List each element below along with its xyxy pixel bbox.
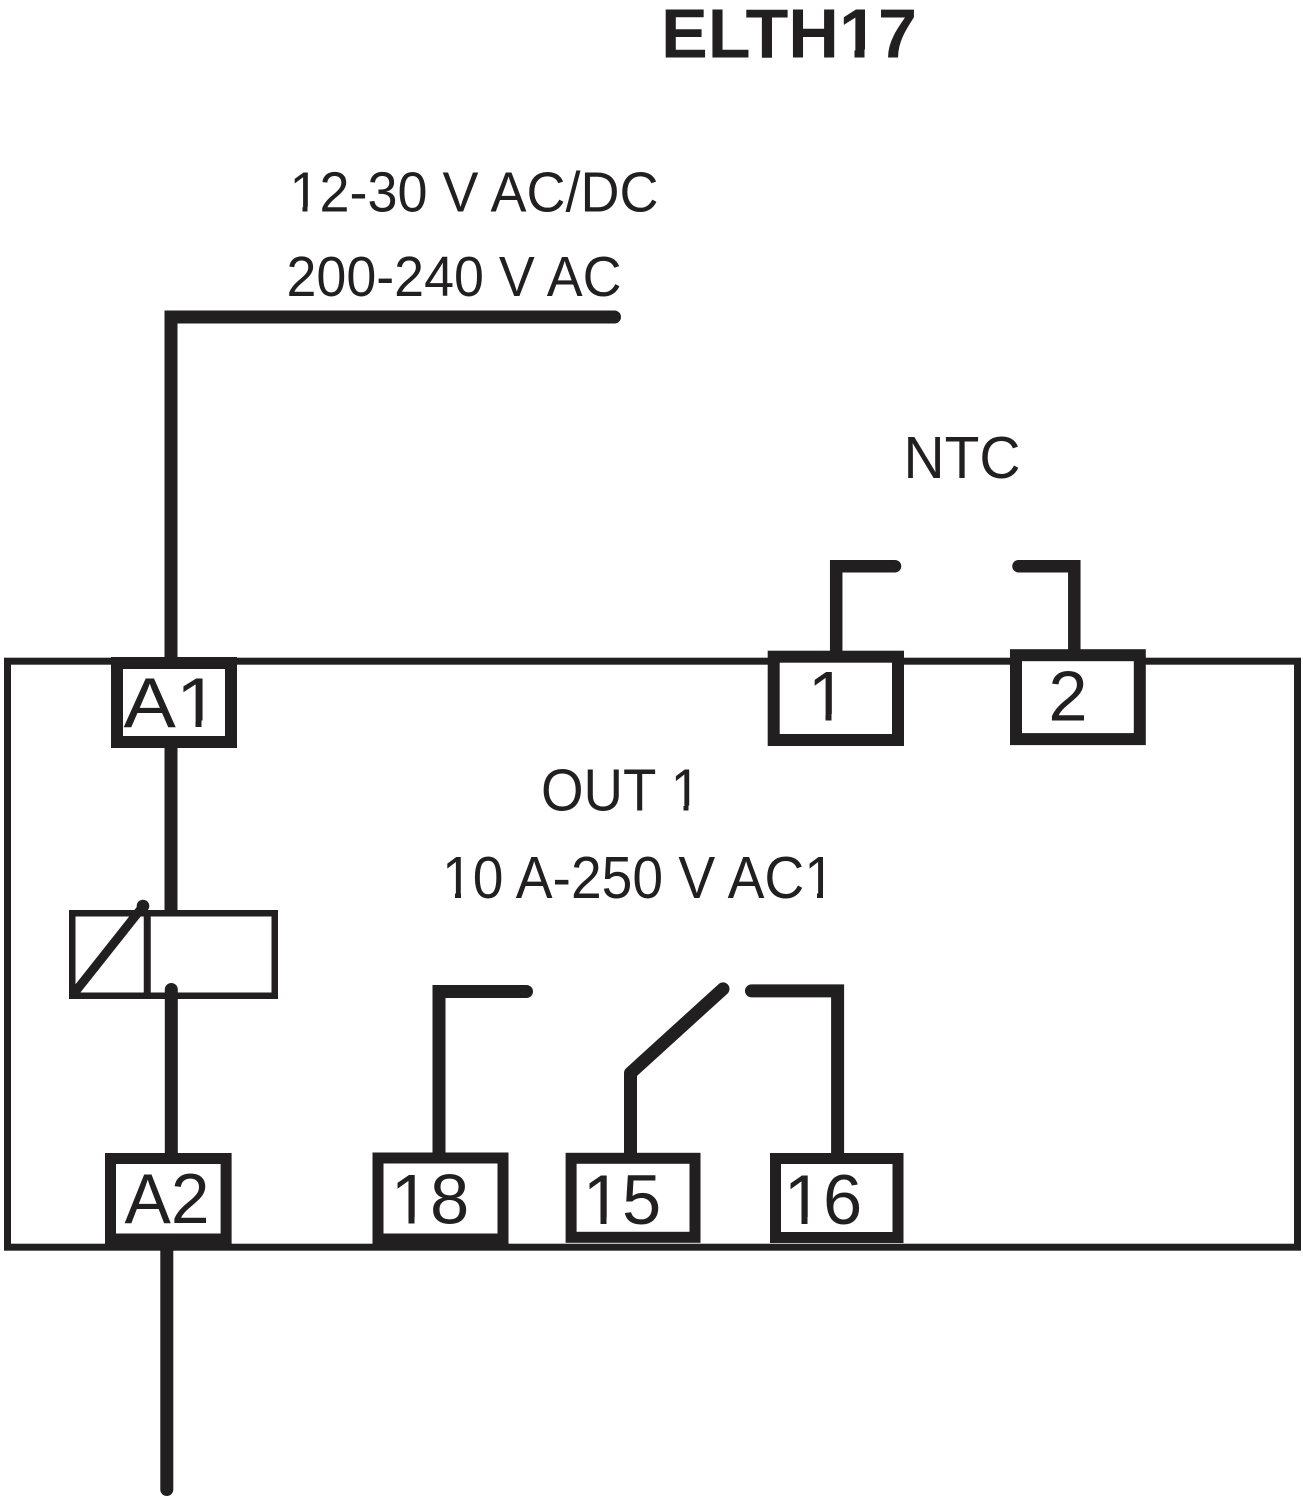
svg-text:10 A-250 V AC1: 10 A-250 V AC1 <box>442 845 835 911</box>
terminal box 1 <box>774 657 898 741</box>
wire: NTC sensor hook at terminal 2 <box>1019 566 1075 652</box>
svg-text:A2: A2 <box>125 1159 210 1238</box>
OUT 1 label <box>541 758 701 824</box>
svg-text:18: 18 <box>391 1160 469 1239</box>
title ELTH17 <box>661 0 917 73</box>
terminal box 18 <box>378 1158 503 1239</box>
svg-text:16: 16 <box>784 1160 862 1239</box>
contact rating label 10 A-250 V AC1 <box>442 845 835 911</box>
wire: contact 16 hook <box>752 991 838 1156</box>
terminal box A2 <box>111 1159 227 1240</box>
wire: contact 18 hook <box>439 992 527 1157</box>
wire: NTC sensor hook at terminal 1 <box>836 566 895 652</box>
svg-text:OUT 1: OUT 1 <box>541 758 701 824</box>
relay coil diagonal stroke <box>76 907 143 992</box>
svg-text:200-240 V AC: 200-240 V AC <box>287 245 622 309</box>
terminal box A1 <box>117 663 231 742</box>
svg-text:A1: A1 <box>124 663 220 742</box>
supply voltage label 12-30 V AC/DC <box>290 161 659 225</box>
terminal box 16 <box>776 1159 899 1240</box>
svg-text:ELTH17: ELTH17 <box>661 0 917 73</box>
relay coil body <box>72 913 275 996</box>
terminal box 2 <box>1016 655 1140 739</box>
wire: terminal A2 output lead <box>160 1245 173 1490</box>
relay coil divider <box>144 910 151 999</box>
terminal box 15 <box>571 1158 695 1239</box>
svg-text:15: 15 <box>583 1160 661 1239</box>
wire: supply line to terminal A1 <box>171 317 615 660</box>
svg-text:2: 2 <box>1048 657 1087 736</box>
svg-text:1: 1 <box>808 657 847 736</box>
svg-text:12-30 V AC/DC: 12-30 V AC/DC <box>290 161 659 225</box>
device outline box <box>8 661 1298 1247</box>
switch contact arm from terminal 15 <box>631 989 724 1156</box>
wire: relay coil to terminal A2 <box>165 990 178 1161</box>
wire: A1 to relay coil <box>165 745 178 915</box>
svg-text:NTC: NTC <box>904 425 1021 491</box>
